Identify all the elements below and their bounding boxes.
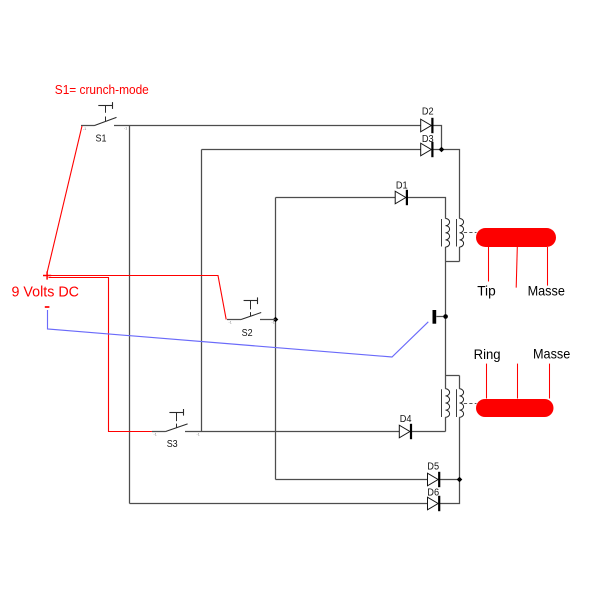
svg-text:-1: -1: [83, 127, 86, 131]
svg-text:-1: -1: [197, 432, 200, 436]
svg-text:D3: D3: [422, 134, 434, 145]
svg-text:D1: D1: [396, 181, 408, 192]
svg-text:-1: -1: [124, 127, 127, 131]
svg-text:S1= crunch-mode: S1= crunch-mode: [55, 82, 149, 97]
svg-text:Masse: Masse: [533, 346, 570, 362]
svg-text:S1: S1: [96, 134, 107, 145]
svg-text:D6: D6: [427, 488, 439, 499]
svg-text:S3: S3: [167, 439, 178, 450]
svg-text:D2: D2: [422, 107, 434, 118]
svg-text:D5: D5: [427, 462, 439, 473]
svg-text:Ring: Ring: [474, 346, 501, 362]
svg-text:-1: -1: [272, 320, 275, 324]
svg-text:Masse: Masse: [528, 283, 565, 299]
svg-text:-1: -1: [154, 433, 157, 437]
svg-text:Tip: Tip: [477, 283, 496, 299]
svg-text:9 Volts DC: 9 Volts DC: [12, 284, 80, 301]
svg-text:S2: S2: [242, 328, 253, 339]
svg-text:-1: -1: [229, 321, 232, 325]
svg-text:D4: D4: [400, 414, 412, 425]
